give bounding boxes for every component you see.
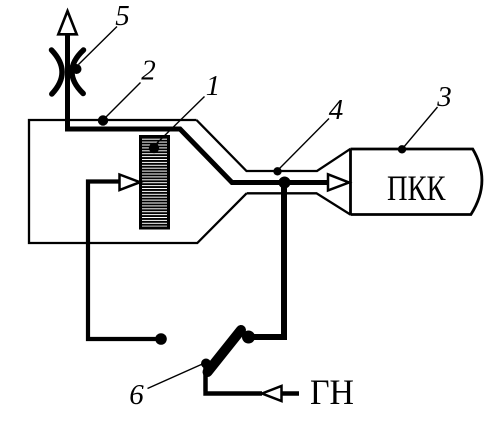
leader 3 bbox=[403, 107, 438, 148]
chamber PKK body U3 bbox=[351, 149, 482, 215]
switch lever (element 6) bbox=[208, 330, 242, 372]
nozzle arrow into chamber bbox=[328, 174, 349, 190]
svg-text:ГН: ГН bbox=[310, 372, 354, 412]
dot 2 bbox=[98, 115, 108, 125]
svg-text:1: 1 bbox=[206, 70, 221, 102]
lower nozzle boundary wire bbox=[247, 193, 351, 214]
GN arrow head bbox=[262, 386, 282, 401]
svg-text:3: 3 bbox=[436, 81, 452, 113]
main drop wire from throat to switch bbox=[252, 183, 287, 338]
leader 1 bbox=[155, 97, 205, 146]
svg-text:2: 2 bbox=[141, 55, 156, 87]
GN stub wire bbox=[282, 391, 300, 396]
upper nozzle boundary wire bbox=[197, 120, 351, 171]
vent arrow head bbox=[58, 11, 76, 34]
vent restrictor left crescent (element 5) bbox=[52, 50, 63, 94]
junction dot at throat bbox=[279, 177, 291, 189]
feed branch wire to element 1 bbox=[88, 182, 158, 340]
regulator element 1 (hatched block) bbox=[141, 137, 169, 229]
leader 2 bbox=[105, 83, 141, 119]
dot 4 bbox=[273, 167, 281, 175]
main flow pipe wire (vent down, across, diagonal, throat) bbox=[65, 30, 330, 183]
dot 1 bbox=[149, 143, 159, 153]
dot 3 bbox=[398, 145, 406, 153]
switch lower pivot dot bbox=[201, 359, 211, 369]
svg-text:ПКК: ПКК bbox=[387, 168, 446, 208]
vent restrictor right crescent (element 5) bbox=[72, 50, 84, 94]
svg-text:6: 6 bbox=[129, 379, 144, 411]
leader 5 bbox=[79, 27, 118, 65]
leader 4 bbox=[279, 119, 330, 170]
enclosure outline (thin body of ejector block) bbox=[29, 120, 247, 243]
switch upper contact dot bbox=[242, 331, 255, 344]
dot 5 bbox=[72, 64, 82, 74]
svg-text:4: 4 bbox=[329, 94, 344, 126]
leader 6 bbox=[148, 362, 209, 389]
wire from switch to GN line bbox=[203, 367, 262, 394]
feed branch end junction dot bbox=[155, 333, 167, 345]
svg-text:5: 5 bbox=[115, 0, 130, 32]
feed arrow into element 1 bbox=[120, 175, 141, 191]
